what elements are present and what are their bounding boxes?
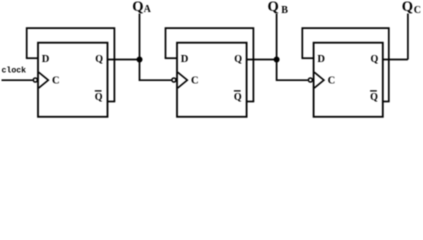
wire: node A down and right to U2 clock <box>140 60 172 81</box>
svg-text:D: D <box>317 54 325 65</box>
svg-text:Q: Q <box>402 0 413 15</box>
svg-text:Q: Q <box>95 92 103 103</box>
clock edge triangle U1 <box>39 72 49 88</box>
wire: node B down and right to U3 clock <box>277 60 308 81</box>
svg-text:Q: Q <box>95 54 103 65</box>
wire: U3 feedback bracket Qbar to D <box>302 28 389 101</box>
svg-text:B: B <box>281 5 288 16</box>
D flip-flop U1 box <box>38 43 108 117</box>
svg-text:Q: Q <box>371 54 379 65</box>
wire: U3 Q output to QC riser <box>383 59 408 61</box>
node A junction dot <box>137 57 143 63</box>
clock edge triangle U2 <box>178 72 188 88</box>
wire: U1 feedback bracket Qbar to D (up and over) <box>27 28 115 101</box>
wire: node A tap up to QA terminal <box>139 14 141 60</box>
svg-text:Q: Q <box>370 92 378 103</box>
svg-text:C: C <box>191 75 199 86</box>
wire: QC riser up to QC terminal <box>407 14 409 60</box>
wire: U1 Qbar output stub <box>108 101 116 103</box>
wire: U2 Qbar output stub <box>247 101 255 103</box>
clock bubble U1 <box>33 78 37 82</box>
svg-text:Q: Q <box>132 0 143 15</box>
svg-text:Q: Q <box>234 54 242 65</box>
svg-text:D: D <box>42 54 50 65</box>
wire: node B tap up to QB terminal <box>276 14 278 60</box>
wire: U2 Q output to node B <box>247 59 277 61</box>
clock input wire <box>2 79 33 81</box>
svg-text:D: D <box>181 54 189 65</box>
svg-text:A: A <box>144 4 152 15</box>
svg-text:C: C <box>414 5 421 16</box>
svg-text:Q: Q <box>234 92 242 103</box>
clock bubble U2 <box>172 78 176 82</box>
wire: U2 D input stub <box>165 57 177 59</box>
wire: U3 D input stub <box>302 57 314 59</box>
clock bubble U3 <box>308 78 312 82</box>
wire: U3 Qbar output stub <box>383 101 390 103</box>
svg-text:C: C <box>328 75 336 86</box>
wire: U2 feedback bracket Qbar to D <box>166 28 254 101</box>
svg-text:clock: clock <box>2 66 27 76</box>
clock edge triangle U3 <box>314 72 324 88</box>
D flip-flop U3 box <box>314 43 383 117</box>
svg-text:Q: Q <box>268 0 279 15</box>
D flip-flop U2 box <box>177 43 247 117</box>
wire: U1 D input stub <box>26 57 38 59</box>
3-bit ripple counter made of negative-edge-triggered D flip-flops <box>0 0 423 119</box>
svg-text:C: C <box>52 75 60 86</box>
node B junction dot <box>274 57 280 63</box>
wire: U1 Q output to node A <box>108 59 140 61</box>
